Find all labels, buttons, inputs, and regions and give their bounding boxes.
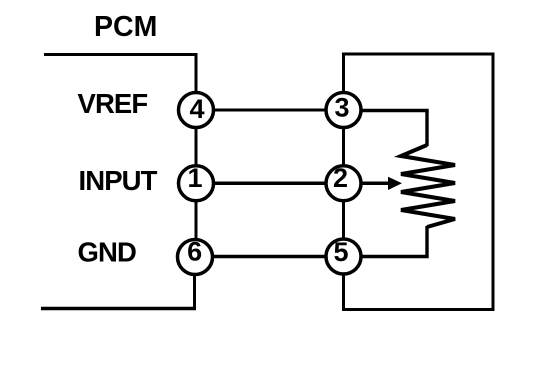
- terminal circle 2: [326, 166, 361, 201]
- wiper arrow from pin 2: [361, 182, 390, 186]
- wire box-top to pin 3: [342, 53, 345, 92]
- terminal circle 6: [178, 240, 213, 275]
- sensor box bottom edge: [342, 308, 495, 311]
- wire pin2 to pin5: [342, 201, 345, 239]
- sensor box right edge: [492, 53, 495, 312]
- svg-text:GND: GND: [78, 237, 136, 268]
- svg-text:6: 6: [187, 237, 202, 267]
- wire pin3 to resistor top: [361, 111, 427, 147]
- terminal circle 5: [326, 239, 361, 274]
- sensor box top edge: [342, 53, 495, 56]
- resistor R (potentiometer element): [401, 145, 455, 227]
- svg-text:5: 5: [333, 237, 348, 267]
- wire pin4 to pin3: [213, 109, 327, 112]
- wire pin6 to bottom: [193, 274, 196, 310]
- svg-text:PCM: PCM: [94, 11, 157, 43]
- wire pin4 to pin1: [195, 127, 198, 166]
- wire bottom-left horizontal: [41, 307, 196, 311]
- wire pin1 to pin6: [195, 200, 198, 240]
- wire vertical to pin 4: [195, 53, 198, 92]
- svg-text:3: 3: [334, 93, 349, 123]
- wire pin3 to pin2: [342, 128, 345, 166]
- wire pin1 to pin2: [213, 182, 327, 186]
- terminal circle 1: [179, 166, 214, 201]
- wire pin6 to pin5: [213, 255, 327, 259]
- terminal circle 3: [326, 93, 361, 128]
- wire resistor bottom to pin5: [361, 226, 427, 257]
- svg-text:2: 2: [333, 163, 348, 193]
- wiper arrowhead: [388, 177, 402, 190]
- svg-text:1: 1: [187, 163, 202, 193]
- wire top-left horizontal: [44, 53, 198, 56]
- svg-text:INPUT: INPUT: [79, 165, 158, 196]
- wire pin5 to box-bottom: [342, 274, 345, 311]
- svg-text:VREF: VREF: [78, 88, 148, 119]
- svg-text:4: 4: [189, 94, 204, 124]
- terminal circle 4: [179, 93, 214, 128]
